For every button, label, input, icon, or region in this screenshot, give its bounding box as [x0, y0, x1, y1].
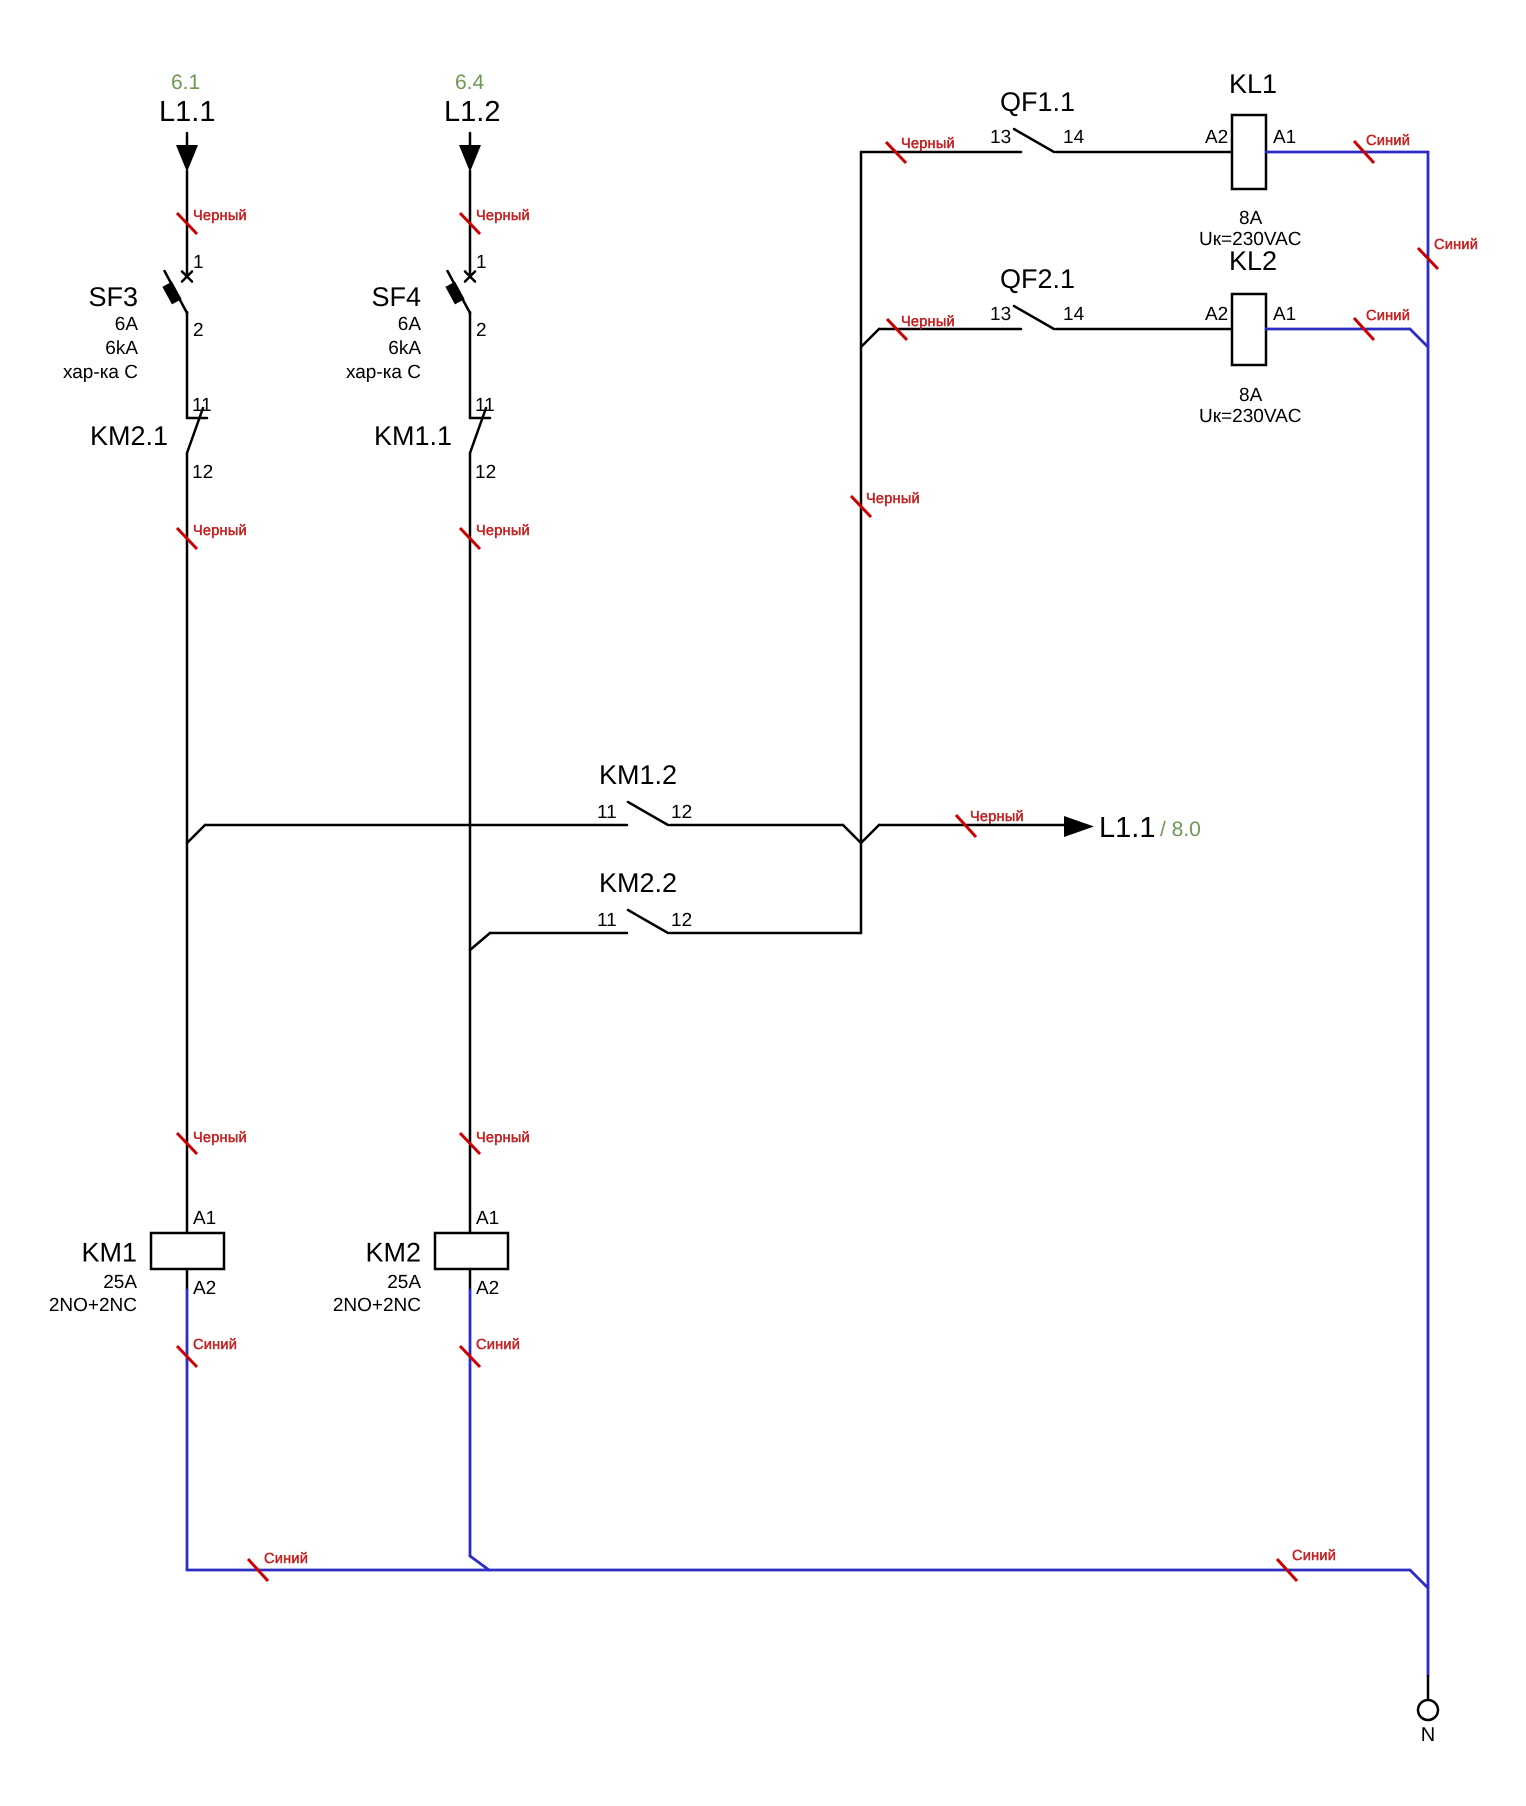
KM2 value 25A [387, 1272, 421, 1293]
pin A2 of KL1 [1205, 127, 1228, 148]
wire column1 to KM1.2 pin 11 [205, 824, 627, 827]
svg-text:Синий: Синий [193, 1337, 237, 1353]
svg-text:A2: A2 [1205, 127, 1228, 148]
svg-text:Черный: Черный [901, 314, 955, 330]
pin A1 of KL2 [1273, 304, 1296, 325]
pin 12 of KM2.1 [192, 462, 213, 483]
svg-text:/ 8.0: / 8.0 [1160, 818, 1201, 841]
pin 11 of KM1.2 [597, 802, 617, 823]
svg-text:6.1: 6.1 [171, 71, 200, 94]
svg-text:Uк=230VAC: Uк=230VAC [1199, 406, 1302, 427]
pin 2 of SF4 [476, 320, 487, 341]
node L1.2 source label [444, 96, 500, 128]
wire bus vertical (junction down to KM2.2 row) [860, 843, 863, 933]
svg-text:хар-ка C: хар-ка C [346, 362, 421, 383]
svg-text:2NO+2NC: 2NO+2NC [333, 1295, 421, 1316]
svg-text:11: 11 [597, 802, 617, 823]
svg-text:6kA: 6kA [388, 338, 421, 359]
wire color mark Черный (QF1.1 row) [886, 136, 955, 163]
label KL1 [1229, 69, 1277, 99]
svg-text:8A: 8A [1239, 208, 1263, 229]
wire color mark Черный (L1.2-SF4) [460, 208, 530, 234]
svg-text:13: 13 [990, 304, 1011, 325]
junction stub KL2 row to right rail [1410, 329, 1428, 347]
pin 11 of KM2.1 [192, 395, 212, 416]
wire L1.1 to SF3 pin 1 [186, 171, 189, 276]
pin 11 of KM1.1 [475, 395, 495, 416]
node L1.2 source arrow [459, 133, 481, 172]
KL2 value 8A [1239, 385, 1263, 406]
node L1.1 source label [159, 96, 215, 128]
pin 14 of QF2.1 [1063, 304, 1085, 325]
wire right rail to N terminal (black stub) [1427, 1676, 1430, 1700]
pin 1 of SF3 [193, 252, 204, 273]
wire color mark Черный (above KM2 coil) [460, 1130, 530, 1154]
pin 12 of KM1.2 [671, 802, 692, 823]
svg-text:25A: 25A [387, 1272, 421, 1293]
off-page arrow L1.1 [1064, 816, 1094, 837]
wire color mark Синий (right rail) [1418, 237, 1478, 269]
wire color mark Синий (below KM1) [177, 1337, 237, 1367]
wire L1.2 to SF4 pin 1 [469, 171, 472, 276]
label SF3 [88, 282, 138, 312]
NO contact KM1.2 [628, 802, 668, 825]
pin A1 of KL1 [1273, 127, 1296, 148]
label KM2.2 [599, 868, 677, 898]
SF4 value хар-ка C [346, 362, 421, 383]
svg-text:Синий: Синий [1366, 308, 1410, 324]
svg-text:A1: A1 [193, 1208, 216, 1229]
pin 12 of KM1.1 [475, 462, 496, 483]
circuit breaker SF4 [445, 271, 475, 313]
svg-text:KM2.2: KM2.2 [599, 868, 677, 898]
wire KM1.2 pin 12 to junction [670, 824, 843, 827]
wire SF4 pin 2 to KM1.1 pin 11 [469, 312, 472, 418]
wire color mark Черный (below KM2.1) [177, 523, 247, 549]
svg-text:25A: 25A [103, 1272, 137, 1293]
label QF2.1 [1000, 264, 1075, 294]
svg-text:6.4: 6.4 [455, 71, 485, 94]
label KM2.1 [90, 421, 168, 451]
junction V at bus (right diagonal) [861, 825, 879, 843]
svg-text:8A: 8A [1239, 385, 1263, 406]
NC contact KM2.1 [187, 408, 207, 453]
circuit breaker SF3 [162, 271, 192, 313]
svg-text:6kA: 6kA [105, 338, 138, 359]
wire color mark Синий (KL2 out) [1354, 308, 1410, 340]
svg-text:Синий: Синий [1292, 1548, 1336, 1564]
wire KM1 A2 black stub [186, 1269, 189, 1290]
svg-text:1: 1 [193, 252, 204, 273]
svg-text:KM1: KM1 [81, 1238, 137, 1268]
wire KM2.1 pin 12 down column 1 [186, 453, 189, 1233]
right rail vertical (blue) [1427, 152, 1430, 1676]
svg-text:A1: A1 [476, 1208, 499, 1229]
label SF4 [371, 282, 421, 312]
wire color mark Черный (bus vertical) [851, 491, 920, 517]
svg-text:SF3: SF3 [88, 282, 138, 312]
wire KM1 A2 to bottom rail (blue) [186, 1290, 189, 1570]
svg-text:KM2: KM2 [365, 1238, 421, 1268]
SF3 value 6kA [105, 338, 138, 359]
junction V at bus (left diagonal) [843, 825, 861, 843]
wire KM2.2 pin 12 to bus corner [670, 932, 861, 935]
svg-text:2: 2 [476, 320, 487, 341]
wire KL1 A1 to right rail (blue) [1266, 151, 1428, 154]
wire SF3 pin 2 to KM2.1 pin 11 [186, 312, 189, 418]
pin 1 of SF4 [476, 252, 487, 273]
node L1.1 cross-reference 6.1 [171, 71, 200, 94]
NO contact QF1.1 [1014, 129, 1054, 152]
wire color mark Черный (L1.1-SF3) [177, 208, 247, 234]
pin 14 of QF1.1 [1063, 127, 1085, 148]
SF4 value 6kA [388, 338, 421, 359]
svg-text:Синий: Синий [1366, 133, 1410, 149]
junction stub bottom rail to right rail [1410, 1570, 1428, 1588]
pin A1 of KM2 [476, 1208, 499, 1229]
svg-text:A2: A2 [476, 1278, 499, 1299]
wire color mark Черный (L1.1 out) [956, 809, 1024, 837]
svg-text:14: 14 [1063, 304, 1085, 325]
terminal N circle [1418, 1700, 1438, 1720]
KL1 value Uк=230VAC [1199, 229, 1302, 250]
svg-text:Черный: Черный [901, 136, 955, 152]
pin 11 of KM2.2 [597, 910, 617, 931]
svg-text:Синий: Синий [264, 1551, 308, 1567]
svg-text:Черный: Черный [476, 208, 530, 224]
wire QF1.1 pin 14 to KL1 A2 [1056, 151, 1232, 154]
svg-text:1: 1 [476, 252, 487, 273]
svg-text:A2: A2 [1205, 304, 1228, 325]
wire color mark Синий (bottom rail right) [1277, 1548, 1336, 1581]
contactor coil KM1 [151, 1233, 224, 1269]
svg-text:KM1.2: KM1.2 [599, 760, 677, 790]
svg-text:Черный: Черный [193, 1130, 247, 1146]
label KM2 [365, 1238, 421, 1268]
pin A2 of KL2 [1205, 304, 1228, 325]
wire column2 to KM2.2 pin 11 [490, 932, 627, 935]
label KM1.2 [599, 760, 677, 790]
label KM1 [81, 1238, 137, 1268]
svg-text:Черный: Черный [866, 491, 920, 507]
NO contact QF2.1 [1014, 306, 1054, 329]
svg-text:12: 12 [671, 802, 692, 823]
pin 2 of SF3 [193, 320, 204, 341]
svg-text:KL2: KL2 [1229, 246, 1277, 276]
wire stub to QF2.1 pin 13 [879, 328, 1021, 331]
svg-text:13: 13 [990, 127, 1011, 148]
pin A1 of KM1 [193, 1208, 216, 1229]
KM2 value 2NO+2NC [333, 1295, 421, 1316]
svg-text:A1: A1 [1273, 304, 1296, 325]
pin 13 of QF1.1 [990, 127, 1011, 148]
svg-text:2: 2 [193, 320, 204, 341]
wire bus corner to QF1.1 pin 13 [861, 151, 1021, 154]
svg-text:хар-ка C: хар-ка C [63, 362, 138, 383]
svg-text:SF4: SF4 [371, 282, 421, 312]
svg-text:KL1: KL1 [1229, 69, 1277, 99]
svg-text:14: 14 [1063, 127, 1085, 148]
svg-text:L1.2: L1.2 [444, 96, 500, 128]
svg-text:Синий: Синий [476, 1337, 520, 1353]
svg-text:6A: 6A [115, 314, 139, 335]
KL1 value 8A [1239, 208, 1263, 229]
wire KL2 A1 right (blue) [1266, 328, 1410, 331]
wire color mark Черный (above KM1 coil) [177, 1130, 247, 1154]
label KM1.1 [374, 421, 452, 451]
node L1.2 cross-reference 6.4 [455, 71, 485, 94]
wire KM2 A2 down (blue) [469, 1290, 472, 1556]
off-page label L1.1 [1099, 812, 1155, 844]
svg-text:12: 12 [475, 462, 496, 483]
wire QF2.1 pin 14 to KL2 A2 [1056, 328, 1232, 331]
svg-text:QF1.1: QF1.1 [1000, 87, 1075, 117]
svg-text:Черный: Черный [476, 523, 530, 539]
NO contact KM2.2 [628, 910, 668, 933]
svg-text:Синий: Синий [1434, 237, 1478, 253]
svg-text:Черный: Черный [476, 1130, 530, 1146]
svg-text:KM1.1: KM1.1 [374, 421, 452, 451]
wire bus vertical (QF rows down to junction) [860, 152, 863, 843]
svg-text:A2: A2 [193, 1278, 216, 1299]
pin A2 of KM1 [193, 1278, 216, 1299]
KL2 value Uк=230VAC [1199, 406, 1302, 427]
svg-text:12: 12 [671, 910, 692, 931]
svg-text:KM2.1: KM2.1 [90, 421, 168, 451]
pin 13 of QF2.1 [990, 304, 1011, 325]
junction stub column2 to bottom rail [470, 1556, 489, 1570]
svg-text:2NO+2NC: 2NO+2NC [49, 1295, 137, 1316]
bottom rail (blue) [187, 1569, 1410, 1572]
svg-text:Черный: Черный [970, 809, 1024, 825]
KM1 value 25A [103, 1272, 137, 1293]
wire color mark Синий (KL1 out) [1354, 133, 1410, 163]
relay coil KL2 [1232, 294, 1266, 365]
svg-text:N: N [1421, 1724, 1435, 1746]
svg-text:Черный: Черный [193, 208, 247, 224]
junction stub column2 to KM2.2 row [470, 933, 490, 950]
junction stub bus to QF2.1 row [861, 329, 879, 347]
off-page cross-reference / 8.0 [1160, 818, 1201, 841]
NC contact KM1.1 [470, 408, 490, 453]
pin 12 of KM2.2 [671, 910, 692, 931]
wire KM2 A2 black stub [469, 1269, 472, 1290]
SF3 value хар-ка C [63, 362, 138, 383]
SF4 value 6A [398, 314, 422, 335]
svg-text:6A: 6A [398, 314, 422, 335]
label QF1.1 [1000, 87, 1075, 117]
pin A2 of KM2 [476, 1278, 499, 1299]
svg-text:L1.1: L1.1 [1099, 812, 1155, 844]
junction stub column1 to KM1.2 row [187, 825, 205, 843]
svg-text:11: 11 [597, 910, 617, 931]
wire KM1.1 pin 12 down column 2 [469, 453, 472, 1233]
label KL2 [1229, 246, 1277, 276]
contactor coil KM2 [435, 1233, 508, 1269]
SF3 value 6A [115, 314, 139, 335]
svg-text:12: 12 [192, 462, 213, 483]
KM1 value 2NO+2NC [49, 1295, 137, 1316]
wire color mark Черный (below KM1.1) [460, 523, 530, 549]
terminal label N [1421, 1724, 1435, 1746]
svg-text:A1: A1 [1273, 127, 1296, 148]
svg-text:QF2.1: QF2.1 [1000, 264, 1075, 294]
svg-text:Черный: Черный [193, 523, 247, 539]
wire color mark Синий (bottom rail left) [248, 1551, 308, 1581]
node L1.1 source arrow [176, 133, 198, 172]
svg-text:L1.1: L1.1 [159, 96, 215, 128]
wire color mark Синий (below KM2) [460, 1337, 520, 1367]
relay coil KL1 [1232, 115, 1266, 189]
wire color mark Черный (QF2.1 row) [887, 314, 955, 340]
wire junction to L1.1 off-page arrow [879, 824, 1066, 827]
